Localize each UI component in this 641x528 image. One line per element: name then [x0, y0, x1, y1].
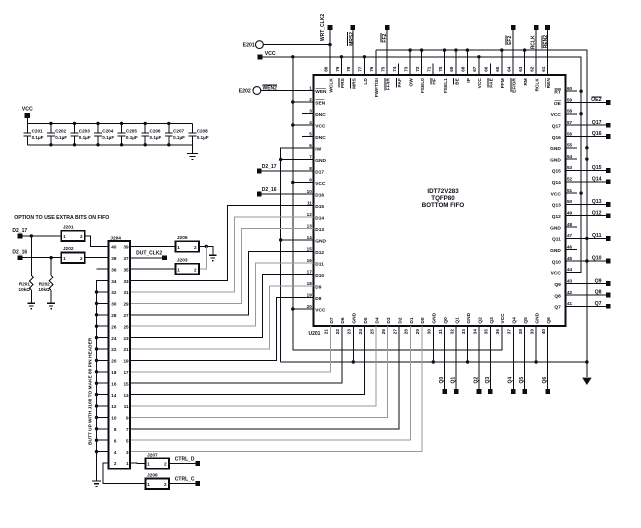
wire D12 U201 pin 15 to J204 pin 27 — [130, 252, 313, 315]
wire D4 U201 pin 25 to J204 pin 11 — [130, 326, 376, 406]
wire GND pin33 to bottom rail — [467, 326, 469, 362]
svg-text:36: 36 — [495, 329, 500, 335]
svg-text:D2_17: D2_17 — [12, 228, 27, 234]
node D2_16 (at U201 D16) — [257, 187, 277, 196]
svg-text:79: 79 — [335, 66, 340, 72]
svg-text:11: 11 — [307, 200, 312, 205]
svg-text:HF: HF — [431, 78, 437, 84]
U201 pin 53 Q15 — [552, 165, 577, 175]
J204 pin numbers 28/27 — [111, 313, 129, 318]
svg-text:VCC: VCC — [551, 271, 562, 277]
wire RCLK pin to RCLK square — [535, 30, 537, 75]
U201 pin 3 DNC — [302, 108, 326, 118]
svg-text:Q8: Q8 — [595, 290, 602, 296]
svg-text:34: 34 — [111, 279, 117, 284]
svg-text:70: 70 — [438, 66, 443, 72]
svg-text:D16: D16 — [315, 192, 324, 198]
U201 pin 11 D15 — [302, 200, 324, 210]
wire REN to REN2 square — [547, 30, 549, 75]
junction left VCC rail taps — [291, 100, 294, 310]
svg-text:31: 31 — [438, 329, 443, 335]
svg-text:5: 5 — [309, 131, 312, 136]
svg-text:D3: D3 — [386, 317, 392, 323]
wire D1 U201 pin 28 to J204 pin 5 — [130, 326, 410, 440]
wire J204 pin 2 to J206 pin 1 — [103, 463, 145, 484]
U201 pin 17 D10 — [302, 269, 324, 279]
svg-text:VCC: VCC — [22, 106, 33, 112]
svg-text:66: 66 — [484, 66, 489, 72]
U201 pin 64 EF/OR — [507, 64, 518, 93]
svg-text:69: 69 — [449, 66, 454, 72]
J204 pin numbers 20/19 — [111, 359, 129, 364]
node Q13 — [566, 199, 611, 207]
svg-text:7: 7 — [309, 154, 312, 159]
U201 pin 78 MRS — [346, 64, 357, 89]
U201 pin 48 GND — [550, 222, 577, 232]
svg-text:16: 16 — [111, 381, 117, 386]
svg-text:D1: D1 — [409, 317, 415, 323]
U201 pin 30 GND — [427, 312, 438, 337]
U201 pin 9 VCC — [302, 177, 326, 187]
svg-text:J203: J203 — [177, 257, 188, 263]
U201 pin 75 FF/IR — [381, 64, 392, 91]
U201 pin 12 D14 — [302, 212, 324, 222]
node Q2 — [473, 326, 481, 394]
junction VCC rail taps — [291, 55, 583, 195]
U201 pin 56 Q16 — [552, 131, 577, 141]
U201 pin 65 PFM — [495, 64, 506, 89]
U201 pin 43 Q9 — [554, 278, 577, 288]
power VCC (main rail) — [257, 51, 276, 59]
wire D6 U201 pin 22 to J204 pin 15 — [130, 326, 342, 383]
capacitor C205 0.1uF — [118, 122, 138, 147]
svg-text:32: 32 — [111, 290, 117, 295]
svg-text:3: 3 — [309, 108, 312, 113]
svg-text:0.1µF: 0.1µF — [102, 135, 114, 140]
svg-text:16: 16 — [307, 258, 313, 263]
wire D14 U201 pin 12 to J204 pin 31 — [130, 217, 313, 292]
wire D3 U201 pin 26 to J204 pin 9 — [130, 326, 387, 417]
svg-text:19: 19 — [123, 359, 129, 364]
U201 pin 5 DNC — [302, 131, 326, 141]
capacitor C201 0.1uF — [23, 123, 43, 144]
svg-text:BE: BE — [454, 77, 460, 84]
svg-text:50: 50 — [567, 199, 573, 204]
svg-text:GND: GND — [352, 312, 358, 323]
svg-text:33: 33 — [461, 329, 466, 335]
wire J204 pin 26 to ground bus — [97, 325, 109, 327]
svg-text:30: 30 — [111, 302, 117, 307]
U201 pin 10 D16 — [302, 189, 324, 199]
svg-text:Q0: Q0 — [443, 317, 449, 324]
svg-text:GND: GND — [466, 312, 472, 323]
svg-text:Q4: Q4 — [512, 317, 518, 324]
connector J202 — [61, 246, 85, 263]
svg-text:OPTION TO USE EXTRA BITS ON FI: OPTION TO USE EXTRA BITS ON FIFO — [14, 215, 109, 221]
svg-text:D2_17: D2_17 — [262, 164, 277, 170]
svg-text:Q8: Q8 — [554, 293, 561, 299]
svg-text:73: 73 — [403, 66, 408, 72]
U201 pin 66 PAE — [484, 64, 495, 88]
svg-text:REN: REN — [546, 78, 552, 89]
J204 pin numbers 18/17 — [111, 370, 129, 375]
svg-text:45: 45 — [567, 256, 573, 261]
J204 pin numbers 40/39 — [111, 245, 129, 250]
U201 pin 32 Q1 — [449, 317, 460, 338]
svg-text:0.1µF: 0.1µF — [126, 135, 138, 140]
svg-text:Q9: Q9 — [595, 278, 602, 284]
svg-text:VCC: VCC — [477, 78, 483, 89]
svg-text:DNC: DNC — [315, 135, 326, 141]
J204 pin numbers 32/31 — [111, 290, 129, 295]
capacitor C204 0.1uF — [94, 122, 114, 147]
svg-text:51: 51 — [567, 188, 573, 193]
svg-text:VCC: VCC — [500, 313, 506, 324]
wire EF/OR to EF2 square — [512, 30, 514, 75]
node EF2 — [506, 25, 516, 45]
node D2_16 (header side) — [12, 250, 27, 261]
wire J205 pin 2 to ground — [199, 246, 213, 255]
svg-text:RCLK: RCLK — [530, 35, 536, 49]
svg-text:Q6: Q6 — [542, 377, 548, 384]
svg-text:37: 37 — [123, 256, 129, 261]
test point E201 — [243, 41, 264, 49]
U201 pin 15 D12 — [302, 246, 324, 256]
svg-text:RM: RM — [523, 78, 529, 85]
svg-text:VCC: VCC — [315, 181, 326, 187]
svg-text:56: 56 — [567, 131, 573, 136]
svg-text:Q13: Q13 — [592, 199, 602, 205]
wire decoupling VCC top rail — [27, 122, 192, 124]
wire WCLK to WRT_CLK2 square — [329, 30, 331, 75]
svg-text:59: 59 — [567, 97, 573, 102]
svg-text:Q5: Q5 — [523, 317, 529, 324]
svg-text:LD: LD — [363, 78, 369, 85]
wire PRS to VCC rail — [340, 57, 342, 75]
svg-text:D15: D15 — [315, 204, 324, 210]
svg-text:1: 1 — [63, 234, 66, 239]
node RCLK — [530, 25, 538, 49]
svg-text:Q12: Q12 — [552, 214, 561, 220]
svg-text:Q16: Q16 — [552, 135, 561, 141]
U201 pin 19 D8 — [302, 292, 322, 302]
svg-text:D14: D14 — [315, 215, 324, 221]
svg-text:34: 34 — [472, 329, 477, 335]
svg-text:1: 1 — [63, 256, 66, 261]
U201 pin 23 GND — [347, 312, 358, 337]
U201 pin 69 BE — [449, 64, 460, 85]
svg-text:0.1µF: 0.1µF — [150, 135, 162, 140]
U201 pin 74 PAF — [392, 64, 403, 88]
svg-text:VCC: VCC — [315, 307, 326, 313]
svg-text:Q17: Q17 — [592, 120, 602, 126]
label U201 part name — [422, 188, 465, 209]
wire GND pin30 to bottom rail — [432, 326, 434, 362]
J204 pin numbers 6/5 — [114, 438, 129, 443]
J204 pin numbers 34/33 — [111, 279, 129, 284]
svg-text:E201: E201 — [243, 43, 255, 49]
J204 pin numbers 12/11 — [111, 404, 129, 409]
node Q6 — [542, 326, 550, 394]
svg-text:2: 2 — [80, 234, 83, 239]
wire J202 pin 2 to J204 pin 38 — [85, 257, 109, 259]
U201 pin 47 Q11 — [552, 233, 577, 243]
svg-text:39: 39 — [123, 245, 129, 250]
svg-text:Q3: Q3 — [485, 377, 491, 384]
node D2_17 (at U201 D17) — [257, 164, 277, 173]
node Q15 — [566, 165, 611, 173]
node Q11 — [566, 233, 611, 241]
svg-text:FF/IR: FF/IR — [386, 78, 392, 91]
svg-text:VCC: VCC — [551, 191, 562, 197]
U201 pin 73 OW — [403, 64, 414, 87]
svg-text:44: 44 — [567, 267, 573, 272]
svg-text:58: 58 — [567, 109, 573, 114]
U201 pin 76 FWFT/SI — [369, 64, 380, 98]
svg-text:2: 2 — [164, 482, 167, 487]
svg-text:GND: GND — [432, 312, 438, 323]
svg-text:D12: D12 — [315, 250, 324, 256]
U201 pin 68 IP — [461, 64, 472, 83]
wire VCC pin20 tap — [293, 308, 314, 310]
svg-text:BOTTOM FIFO: BOTTOM FIFO — [422, 202, 465, 209]
svg-text:Q2: Q2 — [477, 317, 483, 324]
svg-text:15: 15 — [307, 246, 313, 251]
svg-text:22: 22 — [335, 329, 340, 335]
wire VCC top rail to right side — [262, 57, 581, 272]
J204 pin numbers 24/23 — [111, 336, 129, 341]
wire SEN tap — [293, 101, 314, 103]
svg-text:17: 17 — [123, 370, 129, 375]
node Q9 — [566, 278, 611, 286]
svg-text:GND: GND — [535, 312, 541, 323]
svg-text:38: 38 — [111, 256, 117, 261]
svg-text:35: 35 — [123, 267, 129, 272]
svg-text:13: 13 — [307, 223, 313, 228]
node CTRL_D — [169, 457, 200, 466]
svg-text:12: 12 — [307, 212, 313, 217]
svg-text:31: 31 — [123, 290, 129, 295]
svg-text:1: 1 — [177, 245, 180, 250]
U201 pin 80 WCLK — [323, 64, 334, 93]
svg-text:40: 40 — [541, 329, 546, 335]
svg-text:52: 52 — [567, 177, 573, 182]
svg-text:VCC: VCC — [265, 51, 276, 57]
wire J204 pin 1 to J207 pin 1 — [130, 462, 145, 464]
J204 pin numbers 30/29 — [111, 302, 129, 307]
wire VCC pin9 tap — [293, 182, 314, 184]
svg-text:D7: D7 — [329, 317, 335, 323]
svg-text:C207: C207 — [173, 129, 184, 134]
svg-text:C204: C204 — [102, 129, 113, 134]
U201 pin 18 D9 — [302, 281, 322, 291]
svg-text:GND: GND — [315, 238, 326, 244]
svg-text:14: 14 — [111, 393, 117, 398]
capacitor C203 0.1uF — [71, 122, 91, 147]
svg-text:0.1µF: 0.1µF — [55, 135, 67, 140]
U201 pin 77 LD — [358, 64, 369, 85]
wire J204 pin 34 to ground bus — [97, 281, 109, 481]
svg-text:DNC: DNC — [315, 112, 326, 118]
U201 pin 28 D1 — [404, 317, 415, 337]
svg-text:78: 78 — [346, 66, 351, 72]
node Q12 — [566, 210, 611, 218]
svg-text:J207: J207 — [147, 452, 158, 458]
U201 pin 13 D13 — [302, 223, 324, 233]
wire BE to GND rail — [455, 50, 457, 75]
svg-text:D5: D5 — [363, 317, 369, 323]
svg-text:35: 35 — [484, 329, 489, 335]
U201 pin 44 VCC — [551, 267, 578, 277]
J204 pin numbers 8/7 — [114, 427, 129, 432]
svg-text:4: 4 — [309, 120, 312, 125]
wire OW to GND rail — [409, 50, 411, 75]
junction left GND rail taps — [279, 158, 282, 242]
svg-text:11: 11 — [124, 404, 129, 409]
svg-text:8: 8 — [114, 427, 117, 432]
svg-text:17: 17 — [307, 269, 313, 274]
svg-text:30: 30 — [427, 329, 432, 335]
wire MRS to MRS2 square — [352, 30, 354, 75]
J204 pin numbers 36/35 — [111, 267, 129, 272]
U201 pin 45 Q10 — [552, 256, 577, 266]
node Q17 — [566, 120, 611, 128]
svg-text:72: 72 — [415, 66, 420, 72]
svg-text:D10: D10 — [315, 273, 324, 279]
U201 pin 16 D11 — [302, 258, 324, 268]
wire PFM to GND rail — [501, 50, 503, 75]
node Q1 — [451, 326, 459, 394]
svg-text:43: 43 — [567, 278, 573, 283]
wire D9 U201 pin 18 to J204 pin 21 — [130, 286, 313, 349]
wire J204 pin 35 to J203 pin 1 — [130, 268, 175, 270]
node Q10 — [566, 256, 611, 264]
svg-text:E202: E202 — [239, 89, 251, 95]
svg-text:Q13: Q13 — [552, 203, 561, 209]
wire J204 pin 10 to ground bus — [97, 416, 109, 418]
wire J204 pin 28 to ground bus — [97, 314, 109, 316]
U201 pin 46 GND — [550, 245, 577, 255]
svg-text:71: 71 — [426, 66, 431, 72]
U201 pin 49 Q12 — [552, 211, 577, 221]
svg-text:PAF: PAF — [397, 78, 403, 87]
U201 pin 50 Q13 — [552, 199, 577, 209]
wire J204 pin 8 to ground bus — [97, 428, 109, 430]
svg-text:40: 40 — [111, 245, 117, 250]
ground (J204 bus) — [92, 480, 101, 482]
svg-text:Q9: Q9 — [554, 282, 561, 288]
svg-text:RCLK: RCLK — [535, 78, 541, 92]
svg-text:BUTT UP WITH J108 TO MAKE 80 P: BUTT UP WITH J108 TO MAKE 80 PIN HEADER — [87, 337, 93, 445]
svg-text:Q11: Q11 — [592, 233, 602, 239]
svg-text:MRS: MRS — [351, 77, 357, 88]
ground (J205/J203) — [209, 254, 217, 256]
svg-text:12: 12 — [111, 404, 117, 409]
J204 pin numbers 16/15 — [111, 381, 129, 386]
connector J201 — [61, 224, 85, 241]
svg-text:U201: U201 — [309, 331, 321, 337]
svg-text:OE2: OE2 — [591, 97, 601, 103]
svg-text:C205: C205 — [126, 129, 137, 134]
svg-text:22: 22 — [111, 347, 117, 352]
svg-text:6: 6 — [114, 438, 117, 443]
capacitor C207 0.1uF — [165, 122, 185, 147]
svg-text:Q6: Q6 — [546, 317, 552, 324]
U201 pin 61 REN — [541, 64, 552, 89]
U201 pin 62 RCLK — [529, 64, 540, 92]
svg-text:32: 32 — [449, 329, 454, 335]
svg-text:Q5: Q5 — [519, 377, 525, 384]
wire D7 U201 pin 21 to J204 pin 17 — [130, 326, 330, 372]
U201 pin 58 VCC — [551, 109, 578, 119]
wire J204 pin 14 to ground bus — [97, 394, 109, 396]
svg-text:41: 41 — [567, 301, 573, 306]
svg-text:FWFT/SI: FWFT/SI — [374, 78, 380, 98]
svg-text:C206: C206 — [150, 129, 161, 134]
svg-text:20: 20 — [111, 359, 117, 364]
junction D2_16/R202 — [49, 256, 52, 259]
svg-text:Q17: Q17 — [552, 124, 561, 130]
node Q5 — [519, 326, 527, 394]
junction D2_17/R201 — [30, 234, 33, 237]
svg-text:GND: GND — [550, 248, 561, 254]
svg-text:D13: D13 — [315, 227, 324, 233]
svg-text:C208: C208 — [197, 129, 208, 134]
wire D11 U201 pin 16 to J204 pin 25 — [130, 263, 313, 326]
svg-text:53: 53 — [567, 165, 573, 170]
node CTRL_C — [169, 477, 200, 486]
U201 pin 41 Q7 — [554, 301, 577, 311]
wire D2_16 to J202 pin 1 — [22, 257, 61, 259]
svg-text:Q7: Q7 — [595, 301, 602, 307]
svg-text:1: 1 — [147, 482, 150, 487]
svg-text:48: 48 — [567, 222, 573, 227]
wire D2 U201 pin 27 to J204 pin 7 — [130, 326, 399, 429]
wire D2_16 to U201 pin 10 — [262, 193, 314, 195]
U201 pin 57 Q17 — [552, 120, 577, 130]
wire FF/IR to FF2 square — [386, 30, 388, 75]
U201 pin 8 D17 — [302, 166, 324, 176]
svg-text:SEN: SEN — [315, 100, 325, 106]
svg-text:57: 57 — [567, 120, 573, 125]
wire J204 pin 39 to J205 pin 1 — [130, 245, 175, 247]
svg-text:D4: D4 — [375, 317, 381, 323]
svg-text:D6: D6 — [340, 317, 346, 323]
U201 pin 2 SEN — [302, 97, 326, 107]
svg-text:36: 36 — [111, 267, 117, 272]
svg-text:Q16: Q16 — [592, 131, 602, 137]
node Q7 — [566, 301, 611, 309]
node D2_17 (header side) — [12, 228, 27, 239]
svg-text:20: 20 — [307, 304, 313, 309]
svg-text:18: 18 — [307, 281, 313, 286]
U201 pin 52 Q14 — [552, 177, 577, 187]
junction E201/WRT_CLK2 — [328, 43, 331, 46]
wire GND top rail to right side and down — [376, 50, 587, 377]
J204 pin numbers 2/1 — [114, 461, 129, 466]
svg-text:21: 21 — [324, 329, 329, 335]
node REN2 — [542, 25, 550, 48]
U201 pin 38 Q5 — [518, 317, 529, 338]
svg-text:2: 2 — [309, 97, 312, 102]
svg-text:60: 60 — [567, 86, 573, 91]
svg-text:25: 25 — [123, 324, 129, 329]
U201 pin 60 RT — [554, 86, 577, 96]
svg-text:J204: J204 — [110, 235, 121, 241]
svg-text:5: 5 — [126, 438, 129, 443]
svg-text:OW: OW — [409, 78, 415, 87]
svg-text:62: 62 — [529, 66, 534, 72]
